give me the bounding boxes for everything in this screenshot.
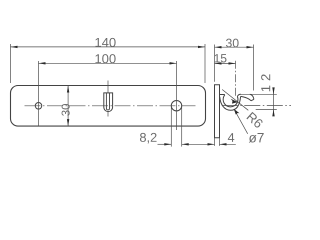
dim 8,2 text (140, 133, 157, 144)
dim 4 text (228, 133, 234, 142)
dim 8,2 arrow (points left at right ext) (182, 143, 189, 145)
dim 12 extension bottom (256, 108, 277, 110)
dim 15 text (215, 54, 227, 62)
leader R6 line (222, 90, 248, 111)
dim 30 side: right extension (253, 45, 255, 91)
hook left lip top edge (220, 94, 225, 96)
dim 8,2 tangent extension left (170, 104, 172, 146)
dim 30 arrow bottom (67, 119, 69, 126)
text diameter 7 (249, 133, 264, 143)
dim 140 arrow right (198, 46, 205, 48)
hole left (plan) (35, 103, 42, 110)
side view horizontal centerline (222, 105, 291, 107)
slot centerline lower tick (107, 112, 109, 117)
dim 4 arrow (points right at plate left face) (208, 143, 215, 145)
dim 12 arrow bottom (points up) (272, 109, 274, 116)
plate outline (plan view) (11, 86, 206, 127)
leader R6 arrow (mid-line, points down-right onto arc) (231, 99, 238, 104)
dim 12 extension top (241, 93, 277, 95)
hook right wall to lip top edge (merges into dim 12 top extension) (237, 94, 241, 96)
dim 8,2 arrow (points right at left ext) (164, 143, 171, 145)
dim 140 extension left (10, 44, 12, 83)
slot inner (plan) (106, 93, 109, 110)
dim 140 arrow left (11, 46, 18, 48)
centerline horizontal (plan) (25, 105, 196, 107)
slot outer (plan) (104, 93, 113, 112)
side plate ext lines below (for dim 4) (215, 138, 220, 146)
dim 8,2 tangent extension right (181, 104, 183, 146)
leader diameter 7 line (234, 109, 248, 134)
dim 4 arrow (points left at plate right face) (220, 143, 227, 145)
dim 100 line (39, 62, 177, 64)
text R6 (rotated along leader) (246, 112, 263, 129)
hook outer surface (220, 96, 241, 110)
dim 30 plate height line (67, 86, 69, 127)
dim 30 side arrows (215, 46, 222, 48)
hook trough centerline vertical (235, 61, 237, 97)
dim 100 arrow left (39, 62, 46, 64)
dim 140 line (11, 46, 206, 48)
dim 140 text (95, 38, 115, 47)
dim 30 side line (215, 46, 254, 48)
dim 4 right segment (220, 143, 236, 145)
dim 30 text (rotated) (62, 104, 70, 116)
hole left centerline vertical / ext of dim 100 (38, 61, 40, 126)
hole right centerline vertical / ext of dim 100 (176, 61, 178, 130)
hook lip end curl (top surface bending down) (250, 94, 254, 99)
hook inner (trough) surface (223, 95, 238, 107)
side plate outline (215, 85, 220, 138)
dim 100 text (95, 54, 115, 63)
dim 30 arrow top (67, 86, 69, 93)
slot centerline vertical (107, 81, 109, 94)
leader diameter 7 arrow (points up-left onto outer arc) (234, 109, 240, 115)
dim 8,2 / dim 4 shared middle segment (182, 143, 215, 145)
dim 12 line (273, 88, 275, 116)
dim 12 text (rotated) (261, 74, 270, 91)
dim 12 arrow top (points down) (272, 87, 274, 94)
dim 30 side: shared left extension (214, 45, 216, 82)
dim 140 extension right (204, 44, 206, 83)
hook lip under surface (241, 96, 251, 100)
hook lip end face (251, 99, 254, 101)
dim 8,2 line left segment (158, 143, 172, 145)
dim 15 line (215, 62, 236, 64)
hole right (plan) (171, 101, 181, 111)
dim 30 side text (226, 39, 239, 48)
dim 100 arrow right (170, 62, 177, 64)
dim 15 arrows (215, 62, 222, 64)
